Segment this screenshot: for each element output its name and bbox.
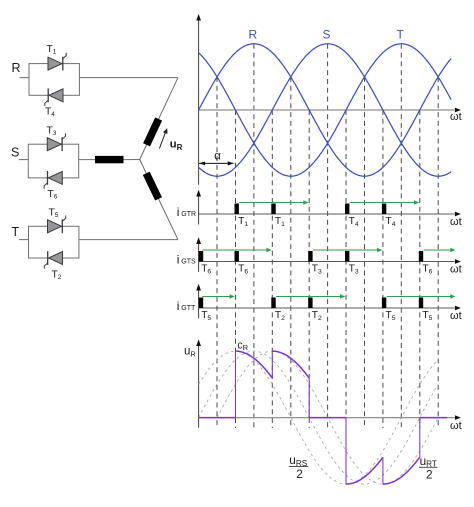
curve u_RT/2 dashed reference — [217, 351, 438, 484]
arrow conduction span (GTS from 360 deg) — [424, 248, 456, 253]
wire phase T input stub — [19, 239, 29, 241]
svg-text:T6: T6 — [422, 264, 432, 276]
curve phase T sine — [199, 44, 452, 176]
node axis i_GTT — [196, 284, 461, 319]
thyristor T4 — [45, 88, 63, 106]
thyristor T2 — [44, 251, 62, 269]
svg-text:T3: T3 — [349, 264, 359, 276]
gate pulse T2 at 120 deg (GTT) — [271, 298, 275, 309]
svg-text:T5: T5 — [49, 208, 59, 220]
gate pulse T3 at 180 deg (GTS) — [308, 251, 312, 262]
svg-text:uR: uR — [170, 139, 183, 152]
svg-text:ωt: ωt — [450, 216, 462, 228]
svg-text:T3: T3 — [47, 126, 57, 138]
node top chart x-axis (omega-t) — [199, 109, 455, 111]
wire S resistor to star point — [124, 159, 140, 161]
svg-text:T: T — [397, 28, 405, 42]
wire grid dashed line 180 deg — [308, 110, 310, 428]
wire u_R waveform jump verticals — [236, 351, 420, 484]
svg-text:T6: T6 — [238, 264, 248, 276]
wire grid dashed line 390 deg — [437, 77, 439, 428]
svg-text:GTS: GTS — [181, 259, 196, 266]
svg-text:T5: T5 — [386, 310, 396, 322]
svg-text:T4: T4 — [349, 216, 359, 228]
wire block R frame — [29, 64, 79, 96]
svg-text:ωt: ωt — [450, 263, 462, 275]
svg-text:S: S — [11, 146, 19, 160]
node axis u_R chart y — [198, 346, 200, 428]
svg-text:T3: T3 — [312, 264, 322, 276]
arrow alpha span — [199, 162, 233, 164]
svg-text:T4: T4 — [45, 107, 55, 119]
label u_RT/2 fraction — [419, 454, 437, 482]
thyristor T5 — [48, 216, 66, 234]
svg-text:ωt: ωt — [450, 420, 462, 432]
node axis u_R chart x — [199, 417, 455, 419]
arrow conduction span (GTR from 240 deg) — [350, 200, 419, 205]
curve phase S sine — [199, 44, 452, 176]
wire R diagonal to star point — [140, 78, 178, 160]
svg-text:T: T — [12, 225, 20, 239]
svg-text:i: i — [177, 253, 180, 267]
gate pulse T4 at 240 deg (GTR) — [345, 204, 349, 215]
wire T block output to corner — [79, 239, 178, 241]
svg-text:T2: T2 — [52, 270, 62, 282]
curve e_R dashed reference — [199, 351, 439, 484]
wire grid dashed line 330 deg — [400, 44, 402, 428]
wire S block output — [79, 159, 95, 161]
node top chart y-axis — [198, 20, 200, 185]
svg-text:cR: cR — [237, 339, 248, 352]
arrow u_R (load voltage arrow) — [159, 133, 165, 149]
svg-text:T2: T2 — [312, 310, 322, 322]
svg-text:GTT: GTT — [181, 305, 196, 312]
svg-text:uRT: uRT — [420, 454, 437, 469]
gate pulse T2 at 180 deg (GTT) — [308, 298, 312, 309]
wire phase R input stub — [20, 77, 30, 79]
wire grid dashed line 30 deg — [216, 77, 218, 428]
svg-text:T6: T6 — [201, 264, 211, 276]
svg-text:GTR: GTR — [181, 211, 196, 218]
gate pulse T5 at 300 deg (GTT) — [382, 298, 386, 309]
svg-text:T4: T4 — [386, 216, 396, 228]
gate pulse T6 at 360 deg (GTS) — [419, 251, 423, 262]
gate pulse T5 at 0 deg (GTT) — [199, 298, 203, 309]
label u_RS/2 fraction — [289, 453, 309, 481]
node axis i_GTS — [196, 237, 461, 272]
svg-text:T6: T6 — [48, 189, 58, 201]
gate pulse T4 at 300 deg (GTR) — [382, 204, 386, 215]
svg-text:ωt: ωt — [450, 310, 462, 322]
arrow conduction span (GTS from 0 deg) — [202, 248, 271, 253]
gate pulse T6 at 0 deg (GTS) — [199, 251, 203, 262]
svg-text:T5: T5 — [201, 310, 211, 322]
svg-text:R: R — [12, 61, 21, 75]
svg-text:uRS: uRS — [289, 453, 307, 468]
svg-text:2: 2 — [426, 468, 433, 482]
arrow conduction span (GTR from 60 deg) — [239, 200, 308, 205]
curve u_RS/2 dashed reference — [199, 351, 439, 484]
curve u_R output waveform — [199, 351, 447, 484]
curve phase R sine — [199, 44, 452, 176]
gate pulse T6 at 60 deg (GTS) — [235, 251, 239, 262]
gate pulse T3 at 240 deg (GTS) — [345, 251, 349, 262]
svg-text:T1: T1 — [238, 216, 248, 228]
svg-text:2: 2 — [296, 467, 303, 481]
wire grid dashed line 120 deg — [271, 110, 273, 428]
svg-text:T1: T1 — [275, 216, 285, 228]
node axis i_GTR — [196, 190, 461, 225]
svg-text:i: i — [177, 299, 180, 313]
gate pulse T1 at 120 deg (GTR) — [271, 204, 275, 215]
arrow conduction span (GTT from 300 deg) — [387, 294, 456, 299]
resistor load T (black bar on T diagonal) — [143, 172, 162, 201]
wire block S frame — [28, 144, 78, 178]
arrow conduction span (GTT from 120 deg) — [276, 294, 345, 299]
wire phase S input stub — [19, 159, 29, 161]
wire grid dashed line 150 deg — [290, 77, 292, 428]
wire block T frame — [29, 226, 79, 258]
resistor load S (black bar on S wire) — [95, 156, 124, 163]
wire grid dashed line 90 deg — [253, 44, 255, 428]
wire grid dashed line 240 deg — [345, 110, 347, 428]
gate pulse T1 at 60 deg (GTR) — [235, 204, 239, 215]
svg-text:T5: T5 — [422, 310, 432, 322]
wire grid dashed line 60 deg — [235, 110, 237, 428]
wire grid dashed line 270 deg — [364, 77, 366, 428]
wire R block output to corner — [79, 77, 178, 79]
thyristor T6 — [44, 171, 62, 189]
svg-text:T1: T1 — [47, 44, 57, 56]
svg-text:S: S — [323, 28, 331, 42]
svg-text:R: R — [249, 28, 258, 42]
wire grid dashed line 210 deg — [327, 44, 329, 428]
svg-text:T2: T2 — [275, 310, 285, 322]
wire grid dashed line 300 deg — [382, 110, 384, 428]
svg-text:α: α — [214, 150, 221, 162]
wire T diagonal to star point — [140, 160, 178, 240]
svg-text:ωt: ωt — [450, 111, 462, 123]
thyristor T3 — [47, 133, 65, 151]
thyristor T1 — [48, 53, 66, 71]
svg-text:uR: uR — [184, 346, 196, 359]
arrow conduction span (GTS from 180 deg) — [313, 248, 382, 253]
arrow conduction span (GTT from 0 deg) — [202, 294, 234, 299]
svg-text:i: i — [177, 205, 180, 219]
gate pulse T5 at 360 deg (GTT) — [419, 298, 423, 309]
resistor load R (black bar on R diagonal) — [143, 117, 162, 146]
wire grid dashed line 360 deg — [419, 110, 421, 428]
